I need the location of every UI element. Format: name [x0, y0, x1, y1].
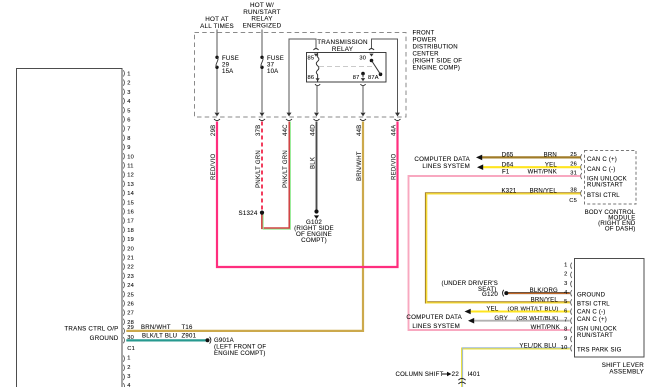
svg-text:I401: I401: [468, 372, 481, 378]
wire D65 BRN CAN C(+): [482, 156, 581, 158]
BCM dashed box: [585, 151, 637, 205]
svg-text:ALL TIMES: ALL TIMES: [200, 23, 234, 30]
svg-text:11: 11: [127, 164, 133, 170]
svg-text:POWER: POWER: [413, 38, 437, 44]
svg-text:9: 9: [127, 145, 130, 151]
svg-text:4: 4: [127, 383, 130, 387]
svg-text:87: 87: [353, 75, 360, 81]
svg-text:26: 26: [127, 302, 134, 308]
wire 29B/44A RED/VIO U-path: [217, 122, 398, 268]
svg-text:CAN C (-): CAN C (-): [577, 309, 606, 315]
svg-text:CAN C (-): CAN C (-): [587, 167, 616, 173]
svg-text:IGN UNLOCK: IGN UNLOCK: [577, 327, 617, 333]
svg-text:D65: D65: [502, 153, 514, 159]
svg-text:17: 17: [127, 219, 134, 225]
svg-text:44C: 44C: [283, 124, 289, 136]
arrows + labels computer data lines (bottom): [465, 309, 471, 315]
svg-text:1: 1: [564, 263, 567, 269]
wire F1 WHT/PNK BCM 31 to shift pin 8: [409, 176, 581, 330]
wire K321 BRN/YEL BCM 38 to shift pin 5: [426, 193, 581, 302]
wire from relay pin 87 down: [362, 86, 364, 112]
svg-text:YEL/DK BLU: YEL/DK BLU: [519, 343, 556, 349]
svg-text:12: 12: [127, 173, 134, 179]
svg-text:PNK/LT GRN: PNK/LT GRN: [283, 150, 289, 188]
svg-text:4: 4: [564, 290, 567, 296]
svg-text:TRS PARK SIG: TRS PARK SIG: [577, 348, 622, 354]
svg-text:T16: T16: [182, 325, 193, 331]
svg-text:8: 8: [127, 136, 130, 142]
svg-text:37: 37: [267, 63, 275, 69]
svg-text:29: 29: [127, 325, 134, 331]
svg-text:WHT/PNK: WHT/PNK: [528, 170, 557, 176]
svg-text:37B: 37B: [256, 125, 262, 136]
wire 44D BLK: [316, 122, 318, 210]
TCM second connector pin arcs 1-4: [123, 356, 124, 362]
svg-text:25: 25: [127, 292, 134, 298]
svg-text:3: 3: [127, 374, 130, 380]
svg-text:BRN: BRN: [544, 153, 557, 159]
svg-text:ENGINE COMP): ENGINE COMP): [413, 66, 461, 72]
svg-text:15A: 15A: [222, 69, 234, 75]
svg-text:87A: 87A: [368, 75, 379, 81]
svg-text:27: 27: [127, 311, 134, 317]
wire D64 YEL CAN C(-): [483, 166, 581, 168]
svg-text:9: 9: [564, 336, 567, 342]
svg-text:44A: 44A: [392, 124, 398, 136]
svg-text:24: 24: [127, 283, 134, 289]
svg-text:ASSEMBLY: ASSEMBLY: [609, 368, 644, 375]
svg-text:BRN/YEL: BRN/YEL: [531, 297, 559, 303]
svg-text:COLUMN SHIFT: COLUMN SHIFT: [396, 372, 444, 378]
svg-text:21: 21: [127, 256, 134, 262]
svg-text:G120: G120: [482, 291, 498, 298]
svg-text:K321: K321: [501, 188, 516, 194]
svg-text:30: 30: [127, 335, 134, 341]
svg-text:YEL: YEL: [545, 162, 558, 168]
FPDC dashed box: [195, 33, 407, 118]
svg-text:22: 22: [127, 265, 134, 271]
svg-text:85: 85: [308, 56, 315, 62]
svg-text:FUSE: FUSE: [222, 56, 239, 62]
svg-text:8: 8: [564, 327, 567, 333]
svg-text:D64: D64: [502, 162, 514, 168]
shift lever pin arcs: [571, 263, 572, 269]
svg-text:22: 22: [452, 371, 460, 378]
svg-text:TRANS CTRL O/P: TRANS CTRL O/P: [64, 325, 118, 332]
shift lever assembly box: [575, 259, 645, 358]
svg-text:5: 5: [564, 299, 567, 305]
svg-text:LINES SYSTEM: LINES SYSTEM: [422, 163, 470, 170]
svg-text:7: 7: [564, 318, 567, 324]
svg-text:BRN/WHT: BRN/WHT: [357, 151, 363, 181]
svg-text:6: 6: [127, 118, 130, 124]
svg-text:S1324: S1324: [239, 210, 258, 217]
svg-text:44B: 44B: [357, 125, 363, 136]
svg-text:FUSE: FUSE: [267, 56, 284, 62]
svg-text:18: 18: [127, 228, 134, 234]
fuse 29 symbol: [215, 56, 218, 59]
fuse 37 symbol: [260, 56, 263, 59]
svg-text:26: 26: [570, 162, 577, 168]
svg-text:86: 86: [308, 75, 315, 81]
splice S1324: [260, 211, 264, 215]
wire from relay pin 86 down: [316, 86, 318, 112]
svg-text:RELAY: RELAY: [332, 46, 354, 53]
svg-text:RED/VIO: RED/VIO: [392, 154, 398, 180]
wire Z901 BLK/LT BLU TCM pin 30: [126, 339, 206, 341]
BCM pin arcs: [581, 154, 582, 160]
svg-text:CAN C (+): CAN C (+): [577, 317, 607, 323]
svg-text:OF DASH): OF DASH): [605, 227, 636, 233]
svg-text:BTSI CTRL: BTSI CTRL: [587, 193, 620, 199]
svg-text:7: 7: [127, 127, 130, 133]
feed wire fuse 37: [261, 30, 263, 57]
svg-text:2: 2: [564, 272, 567, 278]
svg-text:GROUND: GROUND: [90, 335, 119, 342]
svg-text:(UNDER DRIVER'S: (UNDER DRIVER'S: [441, 281, 498, 287]
svg-text:COMPUTER DATA: COMPUTER DATA: [406, 314, 462, 321]
svg-text:RUN/START: RUN/START: [587, 183, 623, 189]
inline connector I401: [458, 378, 465, 380]
svg-text:FRONT: FRONT: [413, 31, 435, 37]
svg-text:C1: C1: [127, 346, 135, 352]
svg-text:19: 19: [127, 237, 134, 243]
wire YEL/DK BLU shift pin 10 to I401: [462, 349, 570, 387]
svg-text:29B: 29B: [211, 125, 217, 136]
svg-text:F1: F1: [502, 170, 510, 176]
svg-text:DISTRIBUTION: DISTRIBUTION: [413, 45, 458, 51]
svg-text:1: 1: [127, 356, 130, 362]
relay internal dashed centerline: [319, 66, 374, 68]
svg-text:15: 15: [127, 200, 134, 206]
wire YEL shift pin 6: [471, 311, 570, 313]
svg-text:COMPT): COMPT): [301, 237, 327, 244]
svg-text:GRY: GRY: [494, 316, 508, 322]
svg-text:25: 25: [570, 152, 577, 158]
svg-text:BLK: BLK: [311, 157, 317, 169]
svg-text:44D: 44D: [311, 124, 317, 136]
svg-text:C5: C5: [569, 198, 577, 204]
svg-text:BRN/WHT: BRN/WHT: [141, 325, 171, 331]
svg-text:10A: 10A: [267, 69, 279, 75]
svg-text:23: 23: [127, 274, 134, 280]
wire 37B PNK/LT GRN dashed: [261, 122, 263, 211]
TCM connector box (left): [17, 69, 123, 387]
svg-text:RED/VIO: RED/VIO: [211, 154, 217, 180]
svg-text:BLK/ORG: BLK/ORG: [530, 288, 558, 294]
wire GRY shift pin 7: [474, 320, 570, 322]
TCM pin arcs 1-30: [123, 70, 124, 76]
svg-text:5: 5: [127, 108, 130, 114]
svg-text:3: 3: [127, 90, 130, 96]
svg-text:RUN/START: RUN/START: [577, 333, 613, 339]
svg-text:Z901: Z901: [182, 334, 197, 340]
svg-text:(OR WHT/BLK): (OR WHT/BLK): [516, 316, 558, 322]
svg-text:30: 30: [359, 56, 366, 62]
svg-text:6: 6: [564, 308, 567, 314]
FPDC bottom edge boundary crossings: [215, 113, 220, 117]
feed wire fuse 29: [216, 30, 218, 57]
svg-text:3: 3: [564, 281, 567, 287]
svg-text:ENERGIZED: ENERGIZED: [243, 22, 282, 29]
svg-text:16: 16: [127, 210, 134, 216]
svg-text:CAN C (+): CAN C (+): [587, 157, 617, 163]
svg-text:ENGINE COMPT): ENGINE COMPT): [214, 351, 266, 357]
svg-text:GROUND: GROUND: [577, 293, 606, 299]
svg-text:CENTER: CENTER: [413, 52, 440, 58]
svg-text:PNK/LT GRN: PNK/LT GRN: [256, 150, 262, 188]
wire 44B BRN/WHT relay 87 to TCM pin 29: [126, 122, 363, 331]
svg-text:38: 38: [570, 188, 577, 194]
svg-text:20: 20: [127, 246, 134, 252]
svg-text:14: 14: [127, 191, 134, 197]
relay coil 85-86: [316, 53, 319, 83]
svg-text:1: 1: [127, 72, 130, 78]
arrows + labels computer data lines (top): [476, 155, 482, 161]
svg-text:(RIGHT SIDE OF: (RIGHT SIDE OF: [413, 59, 463, 65]
svg-text:2: 2: [127, 81, 130, 87]
relay switch 30-87A: [370, 59, 374, 63]
svg-text:(OR WHT/LT BLU): (OR WHT/LT BLU): [507, 307, 558, 313]
svg-text:(LEFT FRONT OF: (LEFT FRONT OF: [214, 345, 266, 351]
svg-text:10: 10: [127, 154, 134, 160]
svg-text:31: 31: [570, 170, 577, 176]
svg-text:29: 29: [222, 63, 230, 69]
wire 44A goalpost from relay pin 30: [372, 39, 398, 116]
svg-text:YEL: YEL: [486, 307, 499, 313]
ground G102: [314, 209, 318, 213]
svg-text:4: 4: [127, 99, 130, 105]
ground G901A: [206, 338, 210, 342]
wire 44C goalpost to relay pin 85: [289, 39, 316, 116]
relay pin edge arcs and entry arrows: [313, 49, 318, 51]
svg-text:G901A: G901A: [214, 338, 235, 344]
svg-text:2: 2: [127, 365, 130, 371]
wire BLK/ORG G120 to shift pin 4: [508, 292, 570, 294]
svg-text:10: 10: [561, 345, 568, 351]
relay pin 87 contact: [361, 72, 365, 76]
svg-text:BRN/YEL: BRN/YEL: [530, 188, 558, 194]
svg-text:13: 13: [127, 182, 134, 188]
svg-text:BLK/LT BLU: BLK/LT BLU: [142, 334, 177, 340]
wire 44C PNK/LT GRN solid: [262, 122, 289, 229]
svg-text:WHT/PNK: WHT/PNK: [531, 325, 560, 331]
relay U1 box: [307, 53, 387, 83]
svg-text:LINES SYSTEM: LINES SYSTEM: [412, 323, 460, 330]
svg-text:BTSI CTRL: BTSI CTRL: [577, 302, 610, 308]
